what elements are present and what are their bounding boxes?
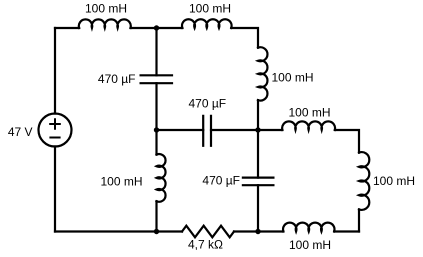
svg-text:470 µF: 470 µF	[98, 72, 136, 86]
svg-text:100 mH: 100 mH	[85, 2, 127, 16]
wire node D to L4	[258, 129, 282, 131]
svg-text:470 µF: 470 µF	[202, 174, 240, 188]
svg-text:100 mH: 100 mH	[272, 71, 314, 85]
junction node E	[154, 229, 159, 234]
wire node D down to C3	[257, 130, 259, 178]
svg-text:100 mH: 100 mH	[100, 175, 142, 189]
junction node C	[154, 127, 159, 132]
capacitor C3	[243, 178, 274, 186]
svg-text:100 mH: 100 mH	[373, 174, 415, 188]
wire L3 to node D	[257, 100, 259, 130]
junction node F	[255, 229, 260, 234]
svg-text:47 V: 47 V	[8, 125, 33, 139]
wire node B down to C1	[155, 28, 157, 75]
svg-text:4,7 kΩ: 4,7 kΩ	[188, 238, 223, 252]
svg-text:100 mH: 100 mH	[288, 106, 330, 120]
inductor L4	[282, 121, 335, 130]
wire C1 to node C	[155, 83, 157, 130]
wire bottom segment A	[55, 230, 182, 232]
inductor L6	[283, 223, 334, 232]
wire left top: source to top-left corner	[54, 28, 56, 114]
inductor L2	[182, 19, 232, 28]
V1 plus sign	[50, 119, 60, 129]
capacitor C1	[141, 75, 172, 83]
junction node D	[255, 127, 260, 132]
inductor L1	[79, 19, 131, 28]
wire node C to C2	[157, 129, 204, 131]
wire L4 to right corner down	[335, 130, 359, 153]
inductor L3	[258, 47, 267, 100]
svg-text:100 mH: 100 mH	[289, 238, 331, 252]
wire C2 to node D	[211, 129, 258, 131]
wire bottom segment B	[234, 230, 283, 232]
inductor L5	[157, 154, 166, 202]
wire bottom segment C	[334, 230, 359, 232]
voltage source V1	[39, 114, 72, 147]
svg-text:100 mH: 100 mH	[189, 2, 231, 16]
wire L7 to bottom right corner	[358, 209, 360, 231]
wire top right corner down	[231, 28, 258, 48]
inductor L7	[359, 152, 369, 210]
svg-text:470 µF: 470 µF	[188, 97, 226, 111]
V1 minus sign	[50, 137, 59, 139]
wire top segment A	[55, 27, 79, 29]
resistor R1	[182, 226, 234, 238]
wire L5 to node E	[155, 201, 157, 231]
capacitor C2	[203, 116, 211, 146]
wire source to bottom left corner	[54, 147, 56, 232]
wire top segment B	[131, 27, 183, 29]
wire node C down to L5	[155, 130, 157, 155]
wire C3 to node F	[257, 185, 259, 231]
junction node B	[154, 25, 159, 30]
